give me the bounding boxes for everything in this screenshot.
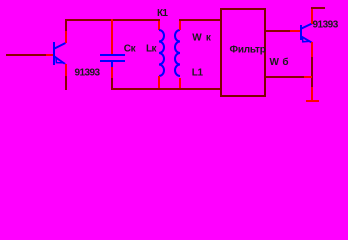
wire coil-right bottom red xyxy=(179,78,181,88)
inductor Wk winding xyxy=(175,30,180,76)
wire base-left maroon xyxy=(6,54,46,56)
wire box to emitter red xyxy=(304,76,312,78)
svg-text:91393: 91393 xyxy=(313,20,339,31)
wire capacitor bottom blue xyxy=(111,62,113,67)
wire coil-left top red xyxy=(158,21,160,30)
wire VT1 emitter red segment xyxy=(65,64,67,76)
wire box to base maroon xyxy=(266,30,290,32)
wire capacitor bottom red xyxy=(111,67,113,78)
capacitor Ck xyxy=(100,54,125,62)
svg-text:W к: W к xyxy=(192,33,212,44)
wire VT1 collector riser xyxy=(65,19,67,31)
wire VT1 emitter stub xyxy=(65,76,67,90)
svg-text:Фильтр: Фильтр xyxy=(230,44,266,55)
filter block Фильтр xyxy=(220,8,266,97)
wire coil-right to box xyxy=(179,19,220,21)
transistor VT1 xyxy=(53,42,66,65)
wire coil-left bottom red xyxy=(158,76,160,88)
wire VT2 collector riser xyxy=(311,7,313,24)
wire box to emitter maroon xyxy=(266,76,304,78)
svg-text:Lк: Lк xyxy=(146,44,157,55)
wire box to base red xyxy=(290,30,300,32)
wire VT2 emitter to ground xyxy=(311,87,313,100)
wire top rail node A xyxy=(65,19,160,21)
wire VT2 emitter maroon segment xyxy=(311,57,313,87)
wire base-left red xyxy=(46,54,53,56)
wire capacitor top red xyxy=(111,19,113,54)
ground xyxy=(306,100,319,102)
wire coil-right top red xyxy=(179,21,181,30)
svg-text:Ск: Ск xyxy=(124,44,137,55)
wire capacitor bottom maroon xyxy=(111,78,113,88)
svg-text:W б: W б xyxy=(270,56,289,68)
wire top stub maroon xyxy=(311,7,325,9)
wire VT1 collector red segment xyxy=(65,31,67,43)
wire bottom rail xyxy=(111,88,220,90)
transistor VT2 xyxy=(300,24,312,43)
wire VT2 emitter red segment xyxy=(311,42,313,57)
svg-text:91393: 91393 xyxy=(75,68,101,79)
svg-text:L1: L1 xyxy=(192,68,204,79)
svg-text:К1: К1 xyxy=(157,8,168,19)
inductor Lk winding xyxy=(159,30,164,76)
